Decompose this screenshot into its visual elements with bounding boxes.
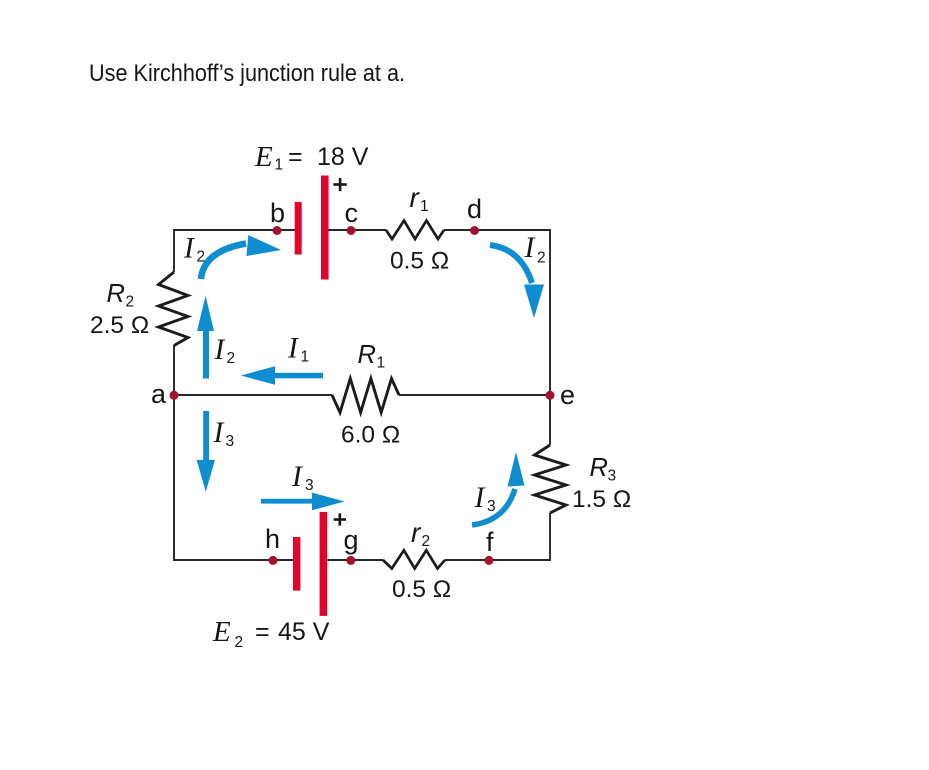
svg-text:0.5 Ω: 0.5 Ω: [390, 248, 449, 275]
svg-text:I: I: [474, 482, 486, 514]
wire bottom (y=560): [174, 559, 550, 561]
resistor R2 (2.5 ohm, left): [159, 272, 189, 346]
resistor R3 (1.5 ohm, right): [535, 445, 567, 513]
current arrow I2 top-left: [201, 244, 246, 280]
svg-text:2.5 Ω: 2.5 Ω: [90, 312, 149, 339]
node a: [170, 391, 179, 400]
svg-text:R: R: [590, 454, 608, 482]
svg-text:b: b: [270, 198, 285, 228]
current arrow I2 top-right: [490, 245, 532, 283]
node e: [546, 391, 555, 400]
svg-text:R: R: [107, 280, 125, 308]
svg-text:1.5 Ω: 1.5 Ω: [572, 486, 631, 513]
svg-text:3: 3: [226, 433, 235, 450]
svg-text:1: 1: [420, 198, 429, 215]
wire left (x=174): [173, 229, 175, 561]
wire middle (a-e at y=395): [174, 394, 550, 396]
svg-text:I: I: [183, 233, 195, 265]
svg-text:2: 2: [227, 350, 236, 367]
svg-text:=: =: [288, 143, 303, 171]
svg-text:6.0 Ω: 6.0 Ω: [341, 422, 400, 449]
current arrow I3 right-curved: [472, 489, 515, 525]
svg-text:1: 1: [275, 157, 284, 174]
current arrow I2 left-vertical: [203, 331, 209, 379]
battery E2 (45 V, bottom): [293, 512, 327, 616]
svg-text:E: E: [212, 616, 231, 648]
battery E1 (18 V, top): [295, 176, 329, 280]
node g: [346, 556, 355, 565]
svg-text:2: 2: [422, 533, 431, 550]
svg-text:R: R: [358, 341, 376, 369]
node b: [273, 226, 282, 235]
wire top (b-c-d segment along y=230): [174, 229, 550, 231]
svg-text:2: 2: [235, 634, 244, 651]
svg-text:18 V: 18 V: [317, 143, 369, 171]
svg-text:I: I: [524, 232, 536, 264]
svg-text:1: 1: [301, 349, 310, 366]
svg-text:3: 3: [608, 468, 617, 485]
current arrow I1: [272, 373, 323, 379]
svg-text:45 V: 45 V: [278, 618, 330, 646]
svg-text:I: I: [213, 417, 225, 449]
resistor r2 (0.5 ohm, bottom): [383, 550, 445, 568]
svg-text:I: I: [287, 333, 299, 365]
node d: [470, 226, 479, 235]
svg-text:0.5 Ω: 0.5 Ω: [392, 576, 451, 603]
plus sign E1: [333, 178, 346, 191]
resistor r1 (0.5 ohm, top): [386, 221, 444, 240]
svg-text:f: f: [486, 527, 494, 557]
node f: [485, 556, 494, 565]
svg-text:Use Kirchhoff’s junction rule: Use Kirchhoff’s junction rule at a.: [89, 60, 405, 87]
svg-text:e: e: [560, 380, 575, 410]
svg-text:I: I: [214, 334, 226, 366]
current arrow I3 bottom: [261, 499, 314, 504]
svg-text:3: 3: [305, 477, 314, 494]
svg-text:E: E: [254, 141, 273, 173]
plus sign E2: [334, 513, 346, 525]
svg-text:d: d: [467, 194, 482, 224]
svg-text:3: 3: [487, 498, 496, 515]
svg-text:c: c: [345, 198, 359, 228]
resistor R1 (6.0 ohm, middle): [332, 379, 399, 413]
svg-text:2: 2: [537, 250, 546, 267]
svg-text:2: 2: [126, 294, 135, 311]
node h: [269, 556, 278, 565]
svg-text:2: 2: [197, 249, 206, 266]
current arrow I3 down (below node a): [203, 411, 209, 460]
wire right (x=550): [549, 229, 551, 561]
svg-text:g: g: [344, 525, 359, 555]
svg-text:1: 1: [377, 355, 386, 372]
node c: [347, 226, 356, 235]
svg-text:=: =: [255, 618, 270, 646]
svg-text:a: a: [151, 379, 167, 409]
svg-text:I: I: [291, 461, 303, 493]
svg-text:h: h: [265, 524, 280, 554]
